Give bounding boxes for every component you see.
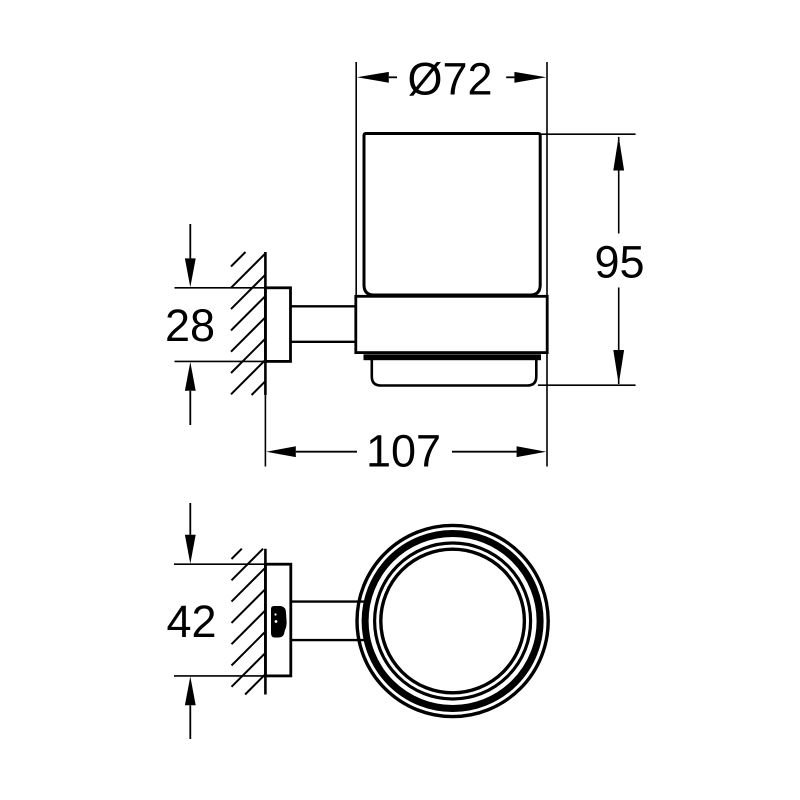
svg-text:Ø72: Ø72 — [407, 54, 492, 105]
svg-text:107: 107 — [366, 426, 441, 477]
svg-text:95: 95 — [594, 236, 644, 287]
svg-text:28: 28 — [165, 300, 215, 351]
svg-text:42: 42 — [166, 596, 216, 647]
